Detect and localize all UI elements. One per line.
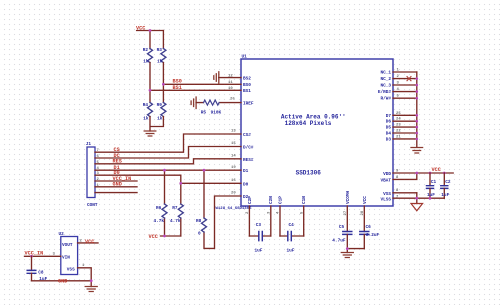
svg-text:E/RD#: E/RD#	[378, 90, 392, 95]
svg-text:2.2uF: 2.2uF	[366, 233, 380, 238]
wire VCC_IN	[95, 180, 137, 182]
svg-text:23: 23	[396, 124, 401, 128]
svg-text:C2: C2	[445, 180, 451, 185]
pin 1 VSS wire	[78, 268, 92, 287]
svg-text:VOUT: VOUT	[62, 243, 73, 248]
svg-text:24: 24	[396, 118, 401, 122]
wire pin1 stub	[95, 192, 137, 194]
svg-text:IREF: IREF	[243, 102, 254, 107]
ground (U2)	[85, 287, 97, 292]
svg-text:BS2: BS2	[243, 77, 251, 82]
svg-text:VCC_IN: VCC_IN	[25, 250, 44, 256]
svg-text:VSS: VSS	[383, 192, 391, 197]
svg-text:R9: R9	[157, 103, 163, 108]
svg-text:D/C#: D/C#	[243, 146, 254, 151]
wire D0	[95, 175, 241, 183]
svg-text:D4: D4	[386, 132, 392, 137]
svg-text:1uF: 1uF	[427, 193, 435, 198]
chip U1 SSD1306 body	[241, 59, 393, 206]
svg-text:CONT: CONT	[87, 203, 98, 208]
wire VSS join	[417, 193, 445, 204]
svg-text:11: 11	[228, 81, 233, 85]
svg-text:910K: 910K	[211, 110, 222, 115]
svg-text:D7: D7	[386, 114, 392, 119]
svg-text:VCC: VCC	[363, 196, 368, 204]
capacitor C2	[443, 173, 445, 186]
svg-text:VBAT: VBAT	[380, 178, 391, 183]
svg-text:U1: U1	[242, 55, 248, 60]
svg-text:R/W#: R/W#	[380, 97, 391, 102]
svg-text:C6: C6	[366, 225, 372, 230]
wire vcc to R columns	[150, 31, 163, 49]
ground (divider)	[144, 131, 156, 136]
svg-text:R8: R8	[196, 219, 202, 224]
svg-text:VCC: VCC	[432, 167, 441, 173]
ground (VCOMH)	[341, 253, 353, 258]
svg-text:CS#: CS#	[243, 133, 251, 138]
capacitor C5	[343, 232, 352, 235]
svg-text:VDD: VDD	[383, 172, 391, 177]
svg-text:27: 27	[344, 210, 348, 215]
svg-text:D6: D6	[386, 120, 392, 125]
svg-text:25: 25	[396, 112, 401, 116]
svg-text:128x64 Pixels: 128x64 Pixels	[285, 120, 332, 127]
svg-text:1k: 1k	[143, 60, 149, 65]
svg-text:VCOMH: VCOMH	[346, 190, 351, 204]
svg-text:14: 14	[231, 155, 236, 159]
wire RES	[95, 159, 241, 164]
svg-text:28: 28	[361, 210, 365, 215]
svg-text:1k: 1k	[143, 117, 149, 122]
wire NC/D bus	[416, 72, 418, 147]
svg-text:D1: D1	[243, 169, 249, 174]
pin 3 VIN wire	[25, 255, 61, 257]
svg-text:4.7k: 4.7k	[170, 219, 181, 224]
svg-text:26: 26	[230, 98, 235, 102]
svg-text:C8: C8	[38, 271, 44, 276]
svg-text:GND: GND	[113, 182, 122, 188]
capacitor C3	[249, 235, 270, 237]
svg-text:13: 13	[231, 130, 236, 134]
wire DC	[95, 147, 241, 159]
pin 2 VOUT wire	[78, 242, 98, 244]
svg-text:J1: J1	[86, 142, 92, 147]
svg-text:NC_2: NC_2	[380, 77, 391, 82]
capacitor C6	[360, 232, 369, 235]
resistor R8	[204, 170, 241, 248]
wire mid columns	[150, 63, 163, 103]
svg-text:BS1: BS1	[243, 89, 251, 94]
svg-text:4.7k: 4.7k	[154, 219, 165, 224]
svg-text:D5: D5	[386, 126, 392, 131]
svg-text:C5: C5	[339, 225, 345, 230]
svg-text:4.7uF: 4.7uF	[332, 238, 346, 243]
svg-text:R3: R3	[157, 48, 163, 53]
svg-text:12: 12	[228, 75, 233, 79]
wire BS0	[163, 83, 241, 85]
svg-text:W128_64_SSD1306: W128_64_SSD1306	[216, 207, 253, 211]
svg-text:15: 15	[231, 142, 236, 146]
svg-text:SSD1306: SSD1306	[296, 169, 322, 176]
svg-text:19: 19	[231, 166, 236, 170]
ground arrow (IREF)	[191, 97, 196, 109]
svg-text:R6: R6	[156, 206, 162, 211]
wire VDD to VCC	[417, 172, 453, 174]
resistor R6 pullup	[164, 170, 166, 236]
svg-text:D3: D3	[386, 137, 392, 142]
resistor R7 pullup	[180, 183, 182, 236]
wire vcomh-vcc join	[347, 249, 364, 253]
svg-text:16: 16	[231, 179, 236, 183]
resistor R9	[161, 103, 166, 117]
svg-text:1k: 1k	[157, 60, 163, 65]
svg-text:C2N: C2N	[269, 196, 274, 204]
svg-text:1uF: 1uF	[287, 248, 295, 253]
svg-text:VCC: VCC	[85, 239, 94, 245]
ground (D bus)	[411, 148, 423, 154]
wire to ground join	[150, 117, 163, 131]
svg-text:RES: RES	[113, 159, 122, 165]
svg-text:VLSS: VLSS	[380, 197, 391, 202]
svg-text:C1: C1	[431, 180, 437, 185]
capacitor C8	[31, 256, 33, 270]
svg-text:R4: R4	[143, 103, 149, 108]
svg-text:RES#: RES#	[243, 158, 254, 163]
junction	[149, 29, 152, 32]
svg-text:C3: C3	[256, 223, 262, 228]
svg-text:GND: GND	[58, 278, 67, 284]
svg-text:10: 10	[228, 87, 233, 91]
svg-text:1uF: 1uF	[441, 193, 449, 198]
svg-text:R2: R2	[143, 48, 149, 53]
svg-text:22: 22	[396, 130, 401, 134]
svg-text:C1N: C1N	[302, 196, 307, 204]
wire VCC rail	[161, 235, 181, 237]
svg-text:20: 20	[231, 192, 236, 196]
svg-text:C2P: C2P	[248, 196, 253, 204]
wire D1	[95, 169, 241, 171]
resistor R3	[161, 49, 166, 63]
svg-text:C4: C4	[289, 223, 295, 228]
svg-text:1k: 1k	[157, 117, 163, 122]
svg-text:R7: R7	[172, 206, 178, 211]
capacitor C1	[429, 173, 431, 186]
wire gnd bottom	[32, 280, 92, 282]
capacitor C4	[280, 235, 304, 237]
svg-text:21: 21	[396, 135, 401, 139]
svg-text:NC_1: NC_1	[380, 71, 391, 76]
junction	[149, 89, 152, 92]
wire CS	[95, 134, 241, 152]
svg-text:VCC: VCC	[149, 234, 158, 240]
svg-text:BS0: BS0	[243, 83, 251, 88]
resistor R4	[148, 103, 153, 117]
ground arrow (BS2)	[214, 72, 219, 83]
resistor R2	[148, 49, 153, 63]
svg-text:VIN: VIN	[62, 256, 70, 261]
svg-text:NC_3: NC_3	[380, 84, 391, 89]
svg-text:D0: D0	[243, 182, 249, 187]
svg-text:VSS: VSS	[67, 267, 75, 272]
svg-text:0: 0	[198, 231, 201, 236]
wire GND	[95, 186, 137, 188]
resistor R5 910K	[196, 102, 241, 104]
svg-text:R5: R5	[201, 110, 207, 115]
no-ERC cross	[407, 77, 411, 81]
svg-text:C1P: C1P	[278, 196, 283, 204]
junction	[162, 83, 165, 86]
ground arrow (VSS)	[411, 204, 423, 211]
wire BS2	[219, 77, 241, 79]
svg-text:1uF: 1uF	[255, 248, 263, 253]
wire BS1	[150, 89, 241, 91]
